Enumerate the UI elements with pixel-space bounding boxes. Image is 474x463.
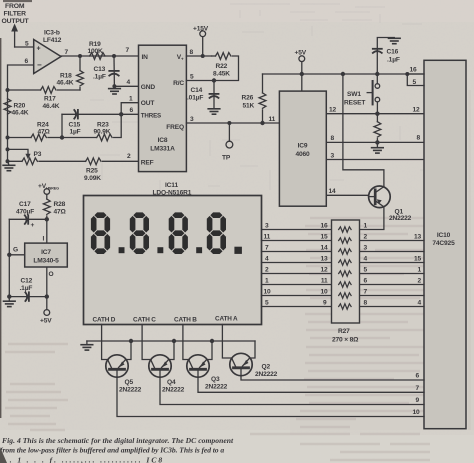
wire op-amp output bbox=[61, 55, 139, 57]
ground below C12 left bbox=[4, 297, 16, 307]
wire IC8 FREQ pin 3 bbox=[186, 122, 279, 124]
svg-text:LM331A: LM331A bbox=[150, 146, 175, 153]
wire row IC9 pin12 to IC10 pin12 bbox=[326, 113, 424, 115]
wire CATH C to Q4 collector bbox=[142, 325, 151, 360]
svg-text:46.4K: 46.4K bbox=[12, 110, 29, 117]
svg-text:9: 9 bbox=[323, 300, 327, 307]
wires transistor bases to IC10 bottom pins bbox=[117, 376, 424, 417]
svg-text:. . 1 . . . f. .....,... .: . . 1 . . . f. .....,... ........... IC8 bbox=[2, 456, 162, 463]
resistor R26 bbox=[259, 74, 266, 123]
svg-text:1: 1 bbox=[265, 278, 269, 285]
svg-text:8.45K: 8.45K bbox=[213, 71, 230, 78]
svg-text:R28: R28 bbox=[54, 201, 66, 208]
svg-text:IC9: IC9 bbox=[298, 143, 308, 150]
wire +5V drop to Q1 collector bbox=[343, 74, 384, 186]
resistor R22 bbox=[186, 53, 238, 81]
svg-text:2: 2 bbox=[265, 267, 269, 274]
svg-text:10: 10 bbox=[320, 289, 328, 296]
switch SW1 bbox=[367, 74, 380, 114]
svg-text:15: 15 bbox=[320, 234, 328, 241]
svg-text:.1µF: .1µF bbox=[387, 57, 400, 64]
wires display pins to R27 (8 rows) bbox=[262, 230, 425, 307]
resistor R17 bbox=[8, 87, 57, 94]
node FROM FILTER OUTPUT input arrow bbox=[11, 24, 18, 48]
svg-text:CATH D: CATH D bbox=[93, 317, 116, 324]
terminal +5V bottom bbox=[44, 297, 50, 316]
resistor R28 bbox=[43, 199, 50, 219]
svg-text:9: 9 bbox=[416, 397, 420, 404]
svg-text:8: 8 bbox=[190, 49, 194, 56]
labels IC7 area bbox=[13, 183, 67, 325]
svg-text:Q4: Q4 bbox=[167, 379, 176, 386]
resistor R23 bbox=[62, 114, 121, 141]
svg-text:90.9K: 90.9K bbox=[94, 129, 111, 136]
svg-text:7: 7 bbox=[65, 49, 69, 56]
svg-text:+5V: +5V bbox=[295, 50, 307, 57]
svg-text:6: 6 bbox=[416, 373, 420, 380]
svg-text:1: 1 bbox=[364, 223, 368, 230]
svg-text:−: − bbox=[37, 61, 42, 70]
test point TP bbox=[226, 123, 233, 148]
wires R27 to IC10 rows bbox=[360, 240, 425, 242]
ground below C13 bbox=[109, 89, 121, 94]
transistor Q3 bbox=[187, 355, 209, 377]
wire Q4 base to IC10 pin 9 bbox=[160, 377, 424, 404]
svg-text:13: 13 bbox=[414, 234, 422, 241]
svg-text:8: 8 bbox=[417, 135, 421, 142]
svg-text:9.09K: 9.09K bbox=[84, 175, 101, 182]
potentiometer P3 bbox=[8, 149, 38, 164]
svg-text:FROM: FROM bbox=[5, 3, 25, 10]
svg-text:270 × 8Ω: 270 × 8Ω bbox=[332, 337, 359, 344]
svg-text:8: 8 bbox=[364, 300, 368, 307]
svg-text:Fig. 4 This is the schematic f: Fig. 4 This is the schematic for the dig… bbox=[2, 436, 234, 445]
wire R18 bottom to R17 bbox=[58, 89, 80, 91]
svg-text:5: 5 bbox=[364, 267, 368, 274]
svg-text:C14: C14 bbox=[191, 87, 203, 94]
svg-text:46.4K: 46.4K bbox=[43, 103, 60, 110]
display IC11 LDQ-N516R1 box bbox=[84, 182, 262, 325]
svg-text:4060: 4060 bbox=[295, 151, 310, 158]
IC9 4060 box bbox=[279, 91, 326, 206]
svg-text:2N2222: 2N2222 bbox=[162, 386, 185, 393]
svg-text:5: 5 bbox=[265, 300, 269, 307]
svg-text:1: 1 bbox=[417, 267, 421, 274]
capacitor C17 bbox=[9, 215, 47, 224]
svg-text:7: 7 bbox=[265, 245, 269, 252]
svg-text:+15V: +15V bbox=[193, 26, 209, 33]
wire Q2 base to IC10 pin 6 bbox=[241, 376, 424, 380]
svg-text:2N2222: 2N2222 bbox=[389, 215, 412, 222]
svg-text:4: 4 bbox=[364, 256, 368, 263]
svg-text:REF: REF bbox=[141, 159, 154, 166]
svg-text:IN: IN bbox=[142, 54, 149, 61]
svg-text:5: 5 bbox=[25, 41, 29, 48]
svg-text:LDQ-N516R1: LDQ-N516R1 bbox=[153, 189, 192, 196]
svg-text:SW1: SW1 bbox=[347, 91, 361, 98]
transistor Q4 bbox=[149, 355, 171, 377]
svg-text:R19: R19 bbox=[89, 41, 101, 48]
wire IC7 output bbox=[46, 267, 48, 297]
svg-text:C15: C15 bbox=[69, 122, 81, 129]
capacitor C14 bbox=[210, 81, 219, 109]
wire Q3 base to IC10 pin 7 bbox=[198, 377, 424, 392]
svg-text:1: 1 bbox=[129, 96, 133, 103]
wire left rail IC7 bbox=[8, 219, 10, 296]
svg-text:R17: R17 bbox=[44, 96, 56, 103]
wire input to op-amp pin 5 bbox=[15, 46, 34, 48]
svg-text:11: 11 bbox=[269, 116, 276, 123]
svg-text:P3: P3 bbox=[34, 151, 42, 158]
wire IC10 pin16 stub bbox=[407, 74, 424, 86]
terminal +15V bbox=[200, 31, 206, 56]
svg-text:.01µF: .01µF bbox=[187, 95, 203, 102]
svg-text:R25: R25 bbox=[86, 168, 98, 175]
svg-text:R20: R20 bbox=[14, 103, 26, 110]
resistor pulldown at SW1 bbox=[374, 114, 381, 143]
svg-text:46.4K: 46.4K bbox=[57, 80, 74, 87]
svg-text:+: + bbox=[31, 222, 35, 229]
svg-text:2N2222: 2N2222 bbox=[119, 386, 142, 393]
wire IC8 THRES pin 6 bbox=[121, 113, 138, 115]
resistor R18 bbox=[77, 56, 84, 90]
svg-text:10: 10 bbox=[264, 289, 272, 296]
svg-text:14: 14 bbox=[320, 245, 328, 252]
svg-text:+5V: +5V bbox=[40, 318, 52, 325]
wire IC9 top stub bbox=[301, 74, 303, 91]
svg-text:2: 2 bbox=[127, 153, 131, 160]
svg-text:R24: R24 bbox=[37, 122, 49, 129]
svg-text:Q5: Q5 bbox=[125, 379, 134, 386]
svg-text:4: 4 bbox=[417, 300, 421, 307]
IC10 left pin labels (rows) bbox=[414, 234, 422, 307]
wire op-amp pin 6 feedback left bbox=[8, 65, 34, 90]
ghost bleed-through strokes bbox=[90, 4, 430, 199]
svg-text:10: 10 bbox=[413, 409, 421, 416]
ground at display rail bbox=[81, 341, 93, 350]
wire row IC9 pin8 to IC10 pin8 bbox=[326, 141, 424, 143]
ground below C14 bbox=[208, 109, 220, 114]
svg-text:5: 5 bbox=[413, 79, 417, 86]
svg-text:CATH A: CATH A bbox=[215, 316, 238, 323]
capacitor C13 bbox=[109, 56, 118, 86]
svg-text:4: 4 bbox=[265, 256, 269, 263]
svg-text:3: 3 bbox=[364, 245, 368, 252]
svg-text:LF412: LF412 bbox=[43, 37, 62, 44]
resistor network R27 box bbox=[332, 220, 360, 344]
svg-text:11: 11 bbox=[321, 278, 328, 285]
labels middle section bbox=[187, 26, 421, 223]
svg-text:16: 16 bbox=[410, 67, 418, 74]
ground left rail bottom bbox=[3, 161, 15, 170]
svg-text:16: 16 bbox=[320, 223, 328, 230]
labels bottom transistors bbox=[119, 364, 420, 417]
labels top-left bbox=[2, 3, 30, 25]
page tone variation bbox=[0, 0, 474, 22]
svg-text:.1µF: .1µF bbox=[93, 74, 106, 81]
svg-text:12: 12 bbox=[413, 107, 421, 114]
transistor Q5 bbox=[106, 355, 128, 377]
svg-text:R18: R18 bbox=[60, 73, 72, 80]
svg-text:R26: R26 bbox=[242, 95, 254, 102]
terminal +V unreg bbox=[44, 189, 50, 199]
svg-text:6: 6 bbox=[364, 278, 368, 285]
svg-text:74C925: 74C925 bbox=[432, 240, 455, 247]
svg-text:IC7: IC7 bbox=[41, 249, 51, 256]
svg-text:2N2222: 2N2222 bbox=[255, 371, 278, 378]
resistor R24 bbox=[8, 134, 63, 141]
svg-text:IC11: IC11 bbox=[165, 182, 178, 189]
wire IC9 pin14 to Q1 base bbox=[326, 194, 368, 196]
IC8 LM331A box bbox=[139, 45, 187, 171]
svg-text:12: 12 bbox=[329, 107, 337, 114]
svg-text:C13: C13 bbox=[94, 66, 106, 73]
svg-text:G: G bbox=[13, 247, 18, 254]
svg-text:7: 7 bbox=[364, 289, 368, 296]
svg-text:47Ω: 47Ω bbox=[54, 209, 67, 216]
svg-text:Q3: Q3 bbox=[211, 376, 220, 383]
wire Q3 emitter riser bbox=[207, 341, 213, 360]
svg-text:2: 2 bbox=[417, 278, 421, 285]
svg-text:IC3-b: IC3-b bbox=[44, 30, 60, 37]
wire IC8 V+ pin 8 bbox=[186, 55, 211, 57]
ground above C16 bbox=[389, 38, 401, 43]
svg-text:THRES: THRES bbox=[141, 113, 161, 120]
svg-text:3: 3 bbox=[190, 116, 194, 123]
display digits 8.8.8.8. bbox=[91, 212, 242, 254]
svg-text:470µF: 470µF bbox=[16, 209, 34, 216]
svg-text:7: 7 bbox=[126, 47, 130, 54]
svg-text:11: 11 bbox=[264, 234, 271, 241]
svg-text:51K: 51K bbox=[243, 103, 255, 110]
svg-text:.1µF: .1µF bbox=[20, 285, 33, 292]
page edge marks bbox=[0, 0, 32, 463]
svg-text:FREQ: FREQ bbox=[166, 124, 184, 131]
ground below pulldown bbox=[372, 142, 384, 153]
svg-text:C16: C16 bbox=[387, 49, 399, 56]
svg-text:CATH B: CATH B bbox=[174, 317, 197, 324]
wire IC7 ground pin bbox=[9, 254, 24, 256]
svg-text:14: 14 bbox=[329, 188, 337, 195]
wire Q1 emitter down to row1 bbox=[360, 207, 384, 230]
svg-text:2: 2 bbox=[364, 234, 368, 241]
svg-text:CATH C: CATH C bbox=[133, 317, 156, 324]
svg-text:Q2: Q2 bbox=[262, 364, 271, 371]
junction dots middle bbox=[201, 54, 410, 145]
svg-text:R/C: R/C bbox=[173, 80, 184, 87]
svg-text:IC8: IC8 bbox=[158, 137, 168, 144]
svg-text:15: 15 bbox=[414, 256, 422, 263]
wire Q4 emitter riser bbox=[169, 341, 175, 360]
svg-text:1µF: 1µF bbox=[70, 129, 81, 136]
R27 left pin labels bbox=[320, 223, 328, 307]
wire IC8 GND pin 4 bbox=[114, 85, 138, 87]
wire +5V rail bbox=[263, 73, 425, 75]
capacitor C16 bbox=[373, 38, 395, 75]
capacitor C15 bbox=[62, 110, 121, 138]
svg-text:+: + bbox=[37, 46, 41, 53]
wire Q5 emitter riser bbox=[126, 341, 132, 360]
caption text bbox=[0, 436, 234, 463]
wire row IC9 pin3 to IC10 bbox=[326, 159, 424, 161]
svg-text:C12: C12 bbox=[21, 278, 33, 285]
svg-text:8: 8 bbox=[331, 135, 335, 142]
wire CATH D to Q5 collector bbox=[102, 325, 109, 360]
wire IC8 OUT pin 1 bbox=[121, 103, 138, 115]
svg-text:LM340-5: LM340-5 bbox=[33, 258, 59, 265]
wire emitter ground rail bbox=[87, 340, 255, 342]
wire Q5 base to IC10 pin 10 bbox=[117, 377, 424, 416]
display pin number labels bbox=[264, 223, 272, 307]
svg-text:IC10: IC10 bbox=[437, 232, 451, 239]
IC10 74C925 box bbox=[424, 60, 466, 428]
svg-text:5: 5 bbox=[190, 74, 194, 81]
svg-text:OUT: OUT bbox=[141, 100, 155, 107]
svg-text:FILTER: FILTER bbox=[4, 11, 27, 18]
svg-text:6: 6 bbox=[130, 107, 134, 114]
svg-text:6: 6 bbox=[25, 58, 29, 65]
svg-text:R22: R22 bbox=[216, 63, 228, 70]
transistor Q1 bbox=[369, 186, 391, 208]
resistor R25 / wire to IC8 REF pin 2 bbox=[39, 158, 139, 165]
capacitor C12 bbox=[9, 292, 47, 301]
svg-text:R27: R27 bbox=[338, 328, 350, 335]
op-amp U IC3-b bbox=[34, 40, 61, 74]
svg-text:4: 4 bbox=[127, 79, 131, 86]
wire CATH B to Q3 collector bbox=[183, 325, 189, 360]
svg-text:C17: C17 bbox=[19, 201, 31, 208]
svg-text:OUTPUT: OUTPUT bbox=[2, 18, 30, 25]
resistor R20 in left rail (drawn over rail) bbox=[4, 99, 11, 114]
svg-text:GND: GND bbox=[141, 84, 156, 91]
svg-text:13: 13 bbox=[320, 256, 328, 263]
wire CATH A to Q2 collector bbox=[222, 325, 232, 359]
transistor Q2 bbox=[230, 353, 252, 375]
R27 right pin labels bbox=[364, 223, 368, 307]
svg-text:12: 12 bbox=[320, 267, 328, 274]
wire IC7 input bbox=[46, 219, 48, 243]
svg-text:3: 3 bbox=[265, 223, 269, 230]
svg-text:RESET: RESET bbox=[344, 100, 365, 107]
terminal +5V bbox=[299, 56, 305, 74]
wire IC10 pin5 stub bbox=[407, 74, 424, 86]
IC7 LM340-5 box bbox=[25, 243, 68, 267]
svg-text:7: 7 bbox=[416, 385, 420, 392]
svg-text:47Ω: 47Ω bbox=[38, 129, 51, 136]
junction dots IC7 area bbox=[7, 217, 49, 299]
svg-text:TP: TP bbox=[222, 155, 231, 162]
wire left rail bbox=[7, 90, 9, 161]
svg-text:100K: 100K bbox=[88, 48, 104, 55]
svg-text:2N2222: 2N2222 bbox=[205, 384, 228, 391]
svg-text:3: 3 bbox=[331, 153, 335, 160]
svg-text:from the low-pass filter is bu: from the low-pass filter is buffered and… bbox=[0, 446, 224, 455]
junction dots emitter rail bbox=[129, 339, 214, 343]
junction dots left area bbox=[6, 54, 124, 163]
resistor R19 bbox=[90, 53, 105, 60]
svg-text:R23: R23 bbox=[97, 122, 109, 129]
wire Q2 emitter riser bbox=[250, 341, 256, 358]
svg-text:O: O bbox=[49, 271, 54, 278]
